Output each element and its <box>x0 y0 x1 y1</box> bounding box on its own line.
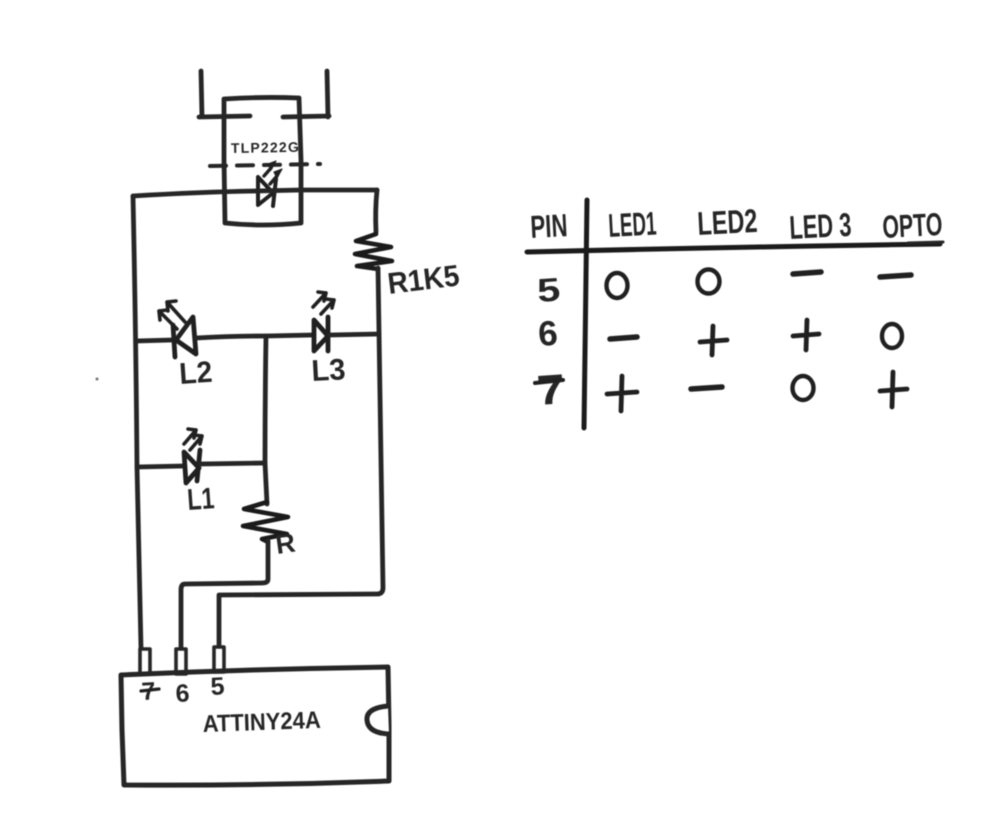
svg-text:LED2: LED2 <box>696 202 758 242</box>
wire: middle vertical rail (L2/L3 node down to R) <box>265 336 267 504</box>
table: horizontal header line <box>527 244 940 252</box>
IC U2 notch (right edge) <box>367 706 389 734</box>
optocoupler U1 TLP222G box <box>224 97 301 225</box>
value row6 LED3: plus <box>793 320 819 350</box>
value row5 LED1: 0 <box>607 273 628 298</box>
underline under OPTO <box>908 242 943 243</box>
resistor R1K5 zigzag <box>355 234 392 269</box>
LED L2 light arrows <box>159 301 185 329</box>
svg-text:TLP222G: TLP222G <box>231 139 300 156</box>
value row5 OPTO: minus <box>880 275 911 277</box>
value row5 LED2: 0 <box>698 270 720 294</box>
LED L2 body <box>173 317 196 357</box>
value row7 LED3: 0 <box>793 376 814 400</box>
value row5 LED3: minus <box>793 272 821 274</box>
dashed isolation line inside U1 <box>210 164 320 166</box>
svg-text:L3: L3 <box>311 353 347 388</box>
LED L3 (points right) <box>314 317 328 351</box>
wire: L2 anode to L3 anode (horizontal, with junction to middle rail) <box>196 335 313 338</box>
wire: L3 cathode to right rail <box>330 334 379 335</box>
wire: left rail to L2 cathode <box>136 340 172 341</box>
resistor R zigzag <box>243 502 288 542</box>
svg-text:R: R <box>274 528 297 560</box>
svg-text:L2: L2 <box>178 356 213 391</box>
svg-text:6: 6 <box>537 314 559 354</box>
wire: L1 cathode to middle rail <box>200 463 265 464</box>
wire: top horizontal net from left rail through U1 to R1K5 <box>133 190 377 196</box>
value row7 LED2: minus <box>691 387 722 389</box>
connector J1 pin right (top) <box>283 71 329 117</box>
svg-text:6: 6 <box>175 679 190 708</box>
wire: right rail from R1K5 down then left to pin 5 <box>219 268 383 646</box>
svg-text:7: 7 <box>535 365 566 414</box>
svg-text:R1K5: R1K5 <box>386 259 461 301</box>
header pin 6 (rectangle) <box>176 649 186 674</box>
opto LED D1 light arrows <box>264 161 282 184</box>
value row7 LED1: plus <box>607 376 637 411</box>
wire: left rail to L1 anode <box>137 466 183 467</box>
crossbar of handwritten 7 <box>535 380 563 383</box>
wire: R bottom down, left, down to pin 6 <box>181 541 268 648</box>
LED L1 light arrows <box>184 429 202 450</box>
svg-text:L1: L1 <box>186 482 215 517</box>
value row6 LED2: plus <box>700 326 727 355</box>
svg-text:5: 5 <box>536 270 562 309</box>
svg-text:PIN: PIN <box>529 207 568 245</box>
wire: left vertical rail (to pin 7) <box>133 196 141 648</box>
wire: right rail upper segment into R1K5 <box>376 190 377 232</box>
connector J1 pin left (top) <box>199 71 250 117</box>
value row7 OPTO: plus <box>880 372 907 407</box>
svg-text:LED 3: LED 3 <box>788 206 852 246</box>
svg-text:ATTINY24A: ATTINY24A <box>202 707 321 738</box>
opto LED D1 (inside U1) <box>258 177 276 206</box>
table: vertical divider line <box>584 200 587 428</box>
svg-text:LED1: LED1 <box>607 205 657 244</box>
svg-text:OPTO: OPTO <box>881 206 943 245</box>
LED L3 light arrows <box>313 292 334 314</box>
value row6 OPTO: 0 <box>882 324 902 348</box>
stray scan speck <box>96 378 99 381</box>
header pin 5 (rectangle) <box>214 647 224 672</box>
IC U2 ATTINY24A box <box>121 667 389 785</box>
svg-text:5: 5 <box>210 672 225 701</box>
value row6 LED1: minus <box>610 337 637 339</box>
header pin 7 (rectangle) <box>140 649 150 674</box>
LED L1 body <box>184 450 200 483</box>
